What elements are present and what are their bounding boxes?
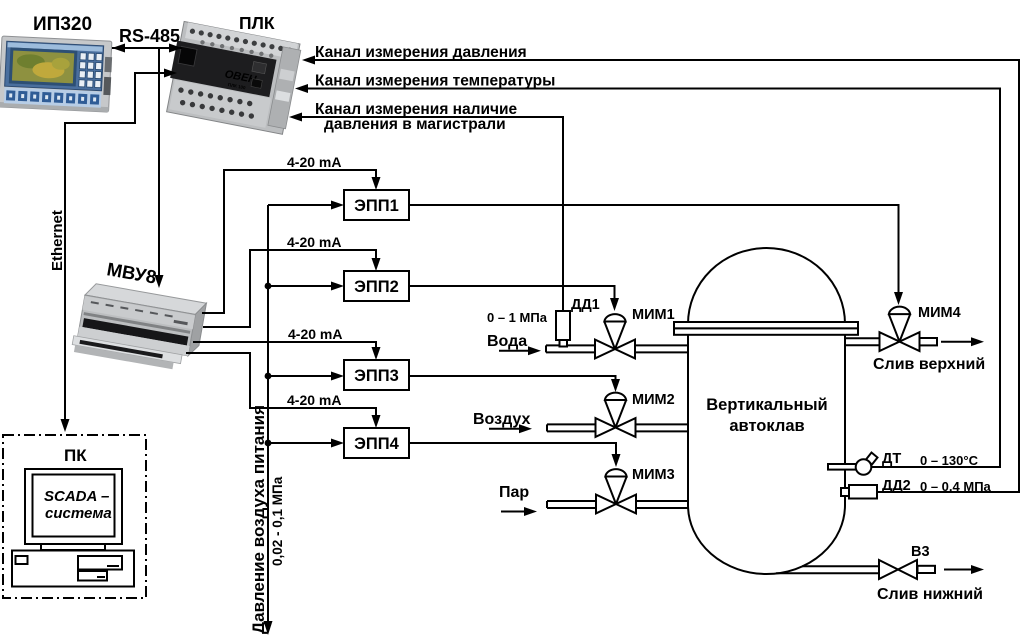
box ЭПП4: [344, 428, 409, 458]
svg-text:ДД2: ДД2: [882, 478, 911, 494]
svg-text:0 – 130°С: 0 – 130°С: [920, 453, 979, 468]
svg-text:Вода: Вода: [487, 333, 527, 350]
svg-text:0,02 - 0,1 МПа: 0,02 - 0,1 МПа: [270, 476, 285, 566]
wire МВУ8 output 1 (4-20 mA to ЭПП1): [202, 170, 381, 313]
valve В3 (manual): [879, 560, 917, 579]
svg-text:давления в магистрали: давления в магистрали: [324, 116, 506, 133]
svg-text:4-20 mA: 4-20 mA: [287, 154, 341, 170]
svg-text:4-20 mA: 4-20 mA: [288, 326, 342, 342]
wire ЭПП1 output to МИМ4: [409, 205, 903, 305]
wire RS-485 branch to МВУ8: [155, 48, 164, 288]
svg-text:МИМ1: МИМ1: [632, 307, 675, 323]
svg-text:ДД1: ДД1: [571, 297, 600, 313]
valve МИМ3: [596, 469, 636, 513]
svg-text:ИП320: ИП320: [33, 14, 92, 35]
svg-text:Давление воздуха питания: Давление воздуха питания: [249, 405, 268, 634]
svg-text:ДТ: ДТ: [882, 451, 901, 467]
svg-text:система: система: [45, 505, 112, 522]
air branch to ЭПП1: [268, 201, 344, 210]
svg-text:Пар: Пар: [499, 484, 529, 501]
svg-text:SCADA –: SCADA –: [44, 488, 109, 505]
wire RS-485 (ИП320 - ПЛК): [112, 44, 182, 53]
PC box (dash-dot frame): [3, 435, 146, 598]
wire МВУ8 output 3 (4-20 mA to ЭПП3): [193, 342, 381, 360]
air branch to ЭПП4: [265, 439, 344, 448]
output module МВУ8: [71, 282, 206, 374]
svg-text:В3: В3: [911, 544, 930, 560]
PLC ПЛК (OWEN controller): [164, 21, 302, 135]
box ЭПП1: [344, 190, 409, 220]
pipe Воздух: [547, 424, 688, 431]
svg-text:Вертикальный: Вертикальный: [706, 396, 827, 414]
valve МИМ1: [595, 314, 635, 358]
label Пар + flow arrow: [499, 484, 537, 516]
svg-text:МИМ4: МИМ4: [918, 305, 961, 321]
svg-text:МИМ2: МИМ2: [632, 392, 675, 408]
wire channel: Канал измерения давления (ДД2 - ПЛК): [302, 56, 1019, 493]
svg-text:МИМ3: МИМ3: [632, 467, 675, 483]
pipe Пар: [547, 501, 688, 508]
sensor ДД1: [556, 311, 570, 347]
svg-text:0 – 1 МПа: 0 – 1 МПа: [487, 310, 548, 325]
svg-text:ЭПП4: ЭПП4: [354, 435, 399, 453]
air branch to ЭПП2: [265, 282, 344, 291]
sensor ДТ: [828, 453, 878, 475]
vessel bottom head: [688, 505, 845, 574]
air branch to ЭПП3: [265, 372, 344, 381]
svg-text:Слив нижний: Слив нижний: [877, 586, 983, 603]
vessel Вертикальный автоклав: dome: [688, 248, 845, 324]
wire ЭПП2 output to МИМ1: [409, 286, 619, 311]
pipe Вода: [546, 345, 688, 352]
PC monitor stand: [41, 544, 105, 550]
wire МВУ8 output 4 (4-20 mA to ЭПП4): [186, 353, 381, 428]
valve МИМ4: [880, 307, 920, 351]
sensor ДД2: [841, 485, 877, 499]
label Вертикальный автоклав: [706, 396, 827, 435]
valve МИМ2: [596, 393, 636, 437]
wire channel: Канал измерения температуры (ДТ - ПЛК): [295, 84, 1000, 467]
svg-text:ЭПП2: ЭПП2: [354, 278, 399, 296]
label Вода + flow arrow: [487, 333, 541, 355]
svg-text:ЭПП3: ЭПП3: [354, 367, 399, 385]
wire ЭПП3 output to МИМ2: [409, 376, 620, 392]
label Воздух + flow arrow: [473, 411, 532, 433]
vessel walls: [688, 335, 845, 505]
svg-text:4-20 mA: 4-20 mA: [287, 392, 341, 408]
svg-text:RS-485: RS-485: [119, 26, 180, 46]
svg-text:ЭПП1: ЭПП1: [354, 197, 399, 215]
svg-text:4-20 mA: 4-20 mA: [287, 234, 341, 250]
wire Ethernet (ПК - ПЛК): [61, 69, 178, 433]
operator panel ИП320: [0, 36, 113, 112]
PC system unit: [12, 551, 134, 587]
wire channel: Канал измерения наличие давления в магистрали (ДД1 - ПЛК): [289, 113, 563, 312]
svg-text:0 – 0,4 МПа: 0 – 0,4 МПа: [920, 479, 992, 494]
svg-text:Слив верхний: Слив верхний: [873, 356, 985, 373]
svg-text:ПЛК: ПЛК: [239, 13, 275, 33]
pipe lower drain: [776, 565, 984, 574]
wire МВУ8 output 2 (4-20 mA to ЭПП2): [203, 250, 381, 327]
svg-text:автоклав: автоклав: [729, 417, 804, 435]
PC monitor: [25, 469, 122, 544]
svg-text:Канал измерения давления: Канал измерения давления: [315, 44, 527, 61]
box ЭПП2: [344, 271, 409, 301]
wire ЭПП4 output to МИМ3: [409, 443, 621, 467]
air supply main line (Давление воздуха питания): [264, 205, 273, 635]
svg-text:Ethernet: Ethernet: [49, 210, 66, 271]
box ЭПП3: [344, 360, 409, 390]
svg-text:Канал измерения температуры: Канал измерения температуры: [315, 73, 555, 90]
svg-text:ПК: ПК: [64, 446, 87, 465]
vessel flange (lid): [674, 322, 858, 335]
pipe upper drain: [845, 337, 984, 346]
